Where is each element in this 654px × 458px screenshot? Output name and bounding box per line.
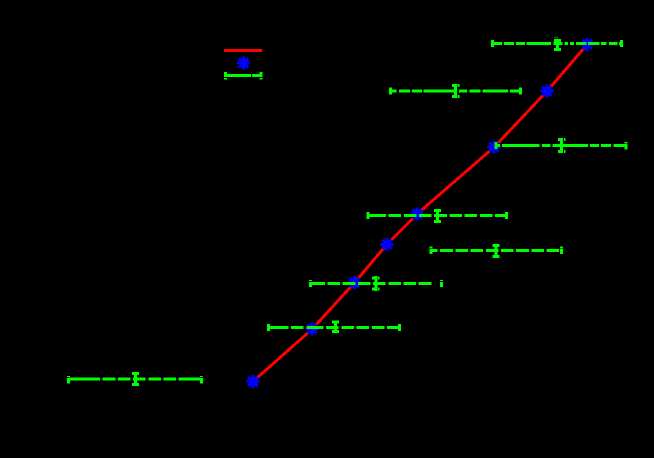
blue asterisk point P8 bbox=[581, 38, 594, 51]
legend blue asterisk sample bbox=[237, 57, 250, 70]
blue asterisk point P6 bbox=[488, 141, 501, 154]
legend red line sample bbox=[224, 49, 262, 52]
green xy-error bar B3 bbox=[311, 276, 442, 291]
blue asterisk point P7 bbox=[541, 85, 554, 98]
blue asterisk point P2 bbox=[306, 323, 319, 336]
red fit line through data points bbox=[253, 44, 587, 381]
green xy-error bar B8 bbox=[493, 37, 622, 51]
faint dark mark above B8 y-error cap bbox=[554, 37, 559, 39]
blue asterisk point P3 bbox=[348, 276, 361, 289]
green xy-error bar B2 bbox=[269, 321, 400, 333]
green xy-error bar B1 bbox=[69, 372, 202, 386]
green xy-error bar B6 bbox=[496, 138, 626, 153]
blue asterisk point P1 bbox=[247, 375, 260, 388]
green xy-error bar B4 bbox=[431, 244, 562, 258]
blue asterisk point P4 bbox=[381, 238, 394, 251]
green xy-error bar B5 bbox=[368, 209, 507, 223]
blue asterisk point P5 bbox=[411, 208, 424, 221]
green xy-error bar B7 bbox=[391, 84, 521, 98]
legend green error bar sample bbox=[226, 72, 262, 80]
